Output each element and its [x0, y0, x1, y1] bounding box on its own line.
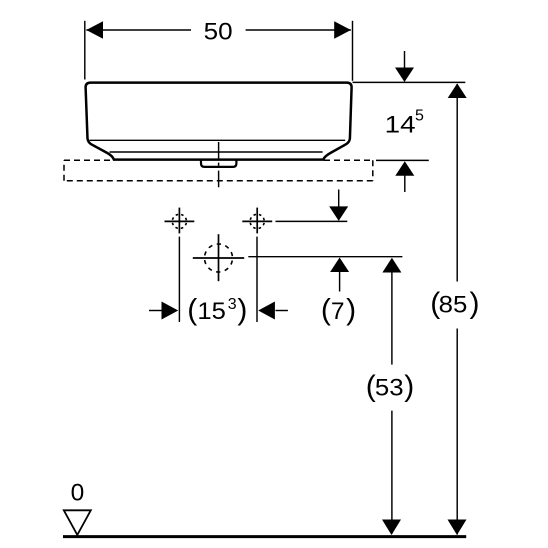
dimension (7)/(53): drain level reference line	[248, 256, 402, 258]
tap hole right: vertical crosshair	[256, 208, 258, 234]
dimension (85): vertical dimension line	[456, 84, 458, 535]
countertop dashed outline: bottom edge	[64, 180, 373, 182]
dimension 50: right arrowhead	[334, 21, 351, 39]
svg-text:): )	[346, 294, 356, 327]
svg-text:53: 53	[375, 375, 404, 402]
drain hole: vertical crosshair	[218, 234, 220, 281]
washbasin outline	[86, 83, 352, 160]
countertop dashed outline: right edge	[372, 160, 374, 180]
svg-text:): )	[404, 370, 414, 403]
svg-text:): )	[470, 287, 480, 320]
tap hole right: extension line down	[256, 237, 258, 322]
dimension (15^3): left arrowhead (right pointing)	[162, 302, 179, 320]
drain hole: horizontal crosshair	[193, 257, 244, 259]
dimension (7): top arrowhead (down)	[329, 206, 348, 221]
dimension 50: right extension line	[352, 21, 354, 81]
svg-text:(: (	[187, 294, 197, 327]
svg-text:15: 15	[197, 298, 226, 325]
dimension (7): top reference line at tap hole level	[276, 220, 348, 222]
svg-text:7: 7	[331, 298, 345, 325]
dimension 14^5: bottom reference line	[376, 159, 429, 161]
floor line	[63, 535, 466, 538]
tap hole right: dashed circle	[250, 214, 264, 228]
dimension (15^3): right arrow stem	[276, 310, 288, 312]
dimension 14^5: top arrow stem	[404, 51, 406, 68]
dimension (85): top arrowhead (up)	[448, 83, 467, 98]
dimension (85): bottom arrowhead (down)	[448, 520, 467, 536]
datum zero triangle	[64, 510, 91, 535]
basin vertical centerline	[218, 142, 220, 187]
dimension (53): label background	[363, 365, 418, 411]
countertop dashed outline: top edge left segment	[64, 159, 113, 161]
dimension (15^3): right arrowhead (left pointing)	[258, 302, 275, 320]
svg-text:85: 85	[439, 292, 468, 319]
svg-text:(: (	[321, 294, 331, 327]
dimension 14^5: top arrowhead (down)	[395, 68, 414, 83]
dimension (53): bottom arrowhead (down)	[382, 520, 401, 536]
washbasin foot line	[110, 151, 323, 153]
dimension 14^5: bottom arrowhead (up)	[395, 161, 414, 176]
countertop dashed outline: left edge	[63, 160, 65, 180]
tap hole left: extension line down	[178, 237, 180, 322]
dimension 14^5: top reference line	[353, 81, 466, 83]
dimension 50: label background	[191, 18, 246, 42]
drain flange under basin	[201, 159, 236, 167]
svg-text:0: 0	[71, 479, 85, 506]
dimension (15^3): left arrow stem	[149, 310, 162, 312]
svg-text:): )	[237, 294, 247, 327]
dimension 50: dimension line	[86, 29, 351, 31]
dimension (7): top arrow stem	[338, 190, 340, 208]
drain hole: dashed circle	[205, 244, 233, 272]
svg-text:50: 50	[204, 19, 233, 46]
svg-text:5: 5	[415, 107, 424, 124]
dimension 50: left extension line	[84, 21, 86, 80]
svg-text:14: 14	[385, 111, 416, 138]
tap hole left: dashed circle	[172, 214, 186, 228]
dimension 14^5: bottom arrow stem	[404, 176, 406, 193]
dimension (7): bottom arrowhead (up)	[330, 258, 349, 273]
countertop dashed outline: top edge right segment	[324, 159, 373, 161]
dimension (7): bottom arrow stem	[339, 272, 341, 292]
tap hole left: vertical crosshair	[178, 208, 180, 234]
dimension 50: left arrowhead	[86, 21, 103, 39]
washbasin inner rim line	[90, 139, 346, 141]
dimension (53): top arrowhead (up)	[382, 258, 401, 273]
svg-text:3: 3	[228, 296, 237, 313]
dimension (85): label background	[428, 282, 483, 329]
dimension (53): vertical dimension line	[391, 259, 393, 534]
tap hole right: horizontal crosshair	[242, 220, 272, 222]
tap hole left: horizontal crosshair	[165, 220, 195, 222]
